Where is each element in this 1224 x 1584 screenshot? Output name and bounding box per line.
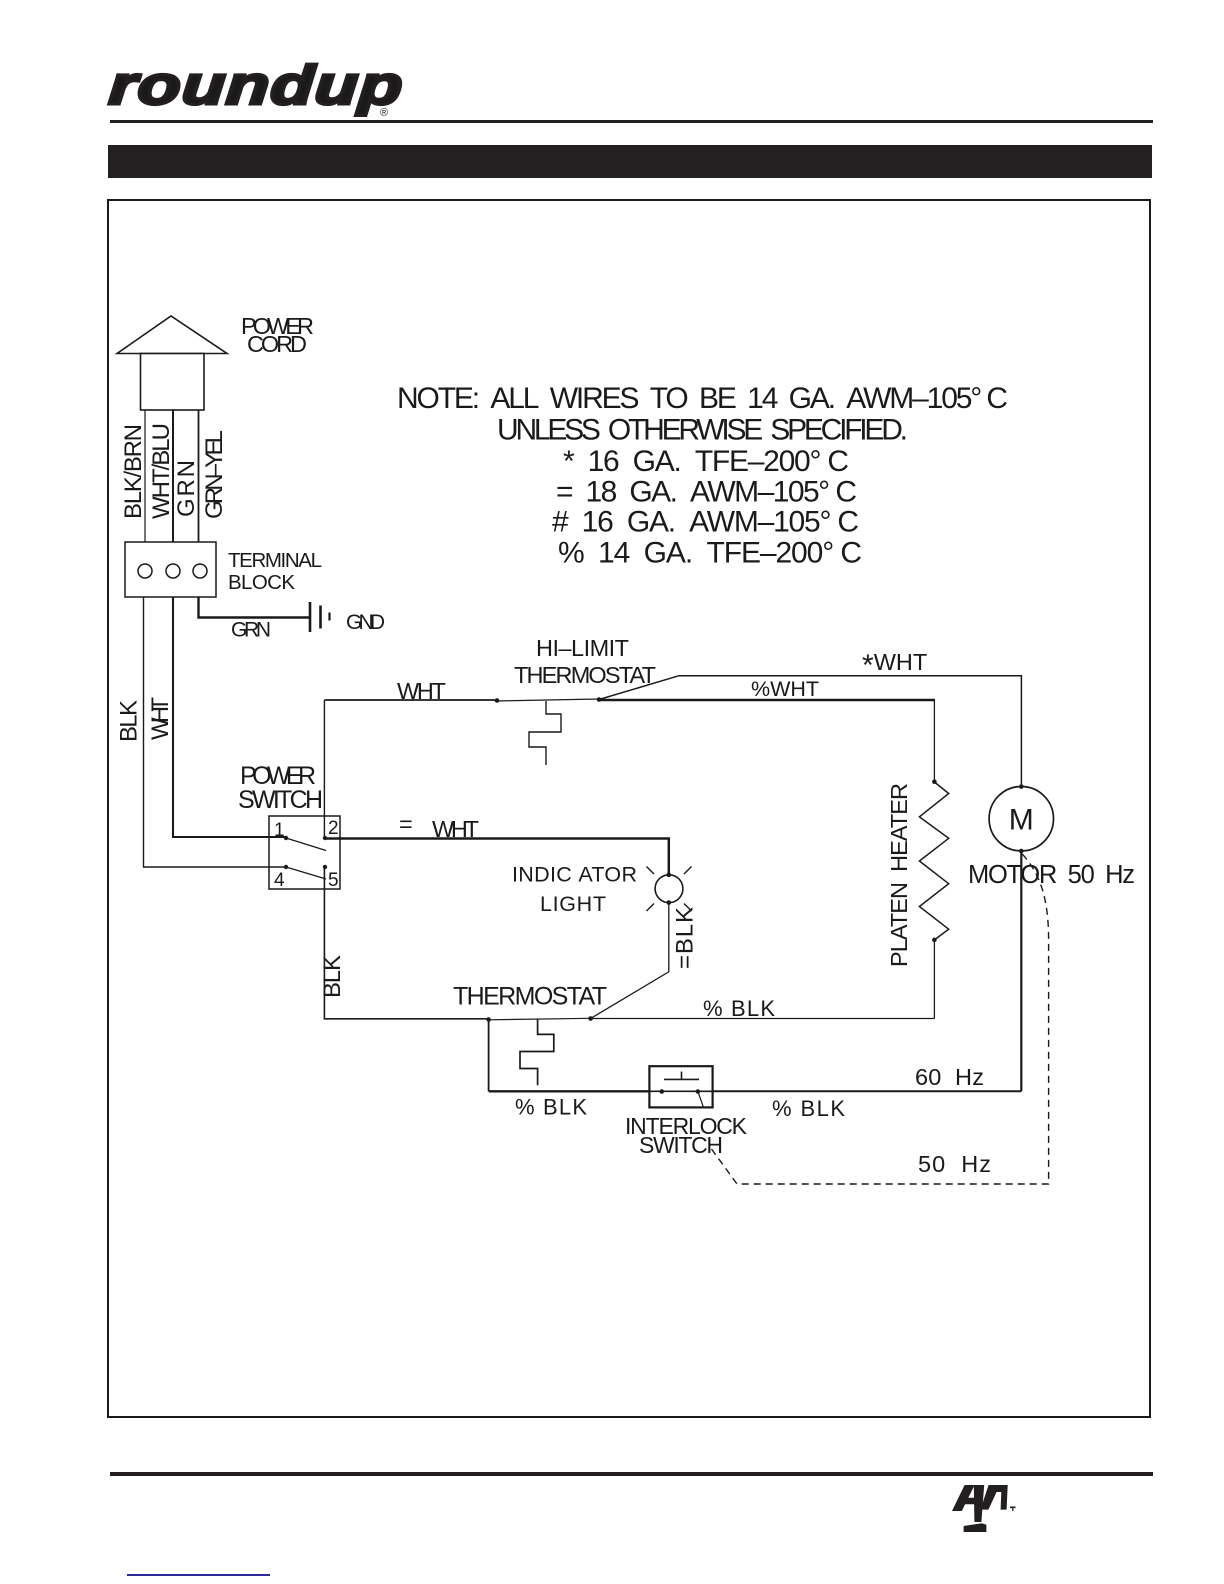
svg-text:BLOCK: BLOCK	[228, 571, 295, 594]
node heater bottom	[932, 938, 937, 943]
node thermostat right contact	[588, 1016, 593, 1021]
wire WHT terminal to power switch pin 1	[173, 597, 286, 837]
svg-text:%WHT: %WHT	[751, 677, 819, 701]
interlock actuator link	[698, 1092, 704, 1108]
svg-text:WHT: WHT	[397, 678, 446, 704]
svg-text:TERMINAL: TERMINAL	[228, 549, 322, 572]
node hi-limit left contact	[495, 698, 500, 703]
hi-limit thermostat blade	[497, 699, 599, 701]
footer rule	[110, 1472, 1153, 1476]
svg-text:4: 4	[274, 870, 285, 891]
diagram border box	[108, 200, 1150, 1417]
header rule	[110, 120, 1153, 123]
svg-text:BLK: BLK	[319, 955, 346, 998]
svg-text:=BLK: =BLK	[672, 907, 699, 969]
node motor top	[1019, 784, 1024, 789]
svg-text:GRN: GRN	[173, 460, 200, 517]
svg-text:% 14 GA. TFE–200° C: % 14 GA. TFE–200° C	[558, 537, 862, 570]
svg-text:5: 5	[328, 870, 339, 891]
hi-limit thermostat sensing element	[529, 701, 561, 765]
indicator light circle	[655, 875, 683, 903]
wire bottom to interlock	[489, 1090, 650, 1092]
wire heater rail top	[933, 700, 935, 782]
thermostat sensing element	[520, 1020, 554, 1086]
node power switch pin5	[323, 865, 327, 869]
svg-text:% BLK: % BLK	[703, 996, 775, 1021]
node power switch pin1	[284, 836, 288, 840]
node power switch pin4	[284, 865, 288, 869]
node thermostat left contact	[486, 1017, 491, 1022]
node hi-limit right contact	[597, 697, 602, 702]
svg-text:1: 1	[274, 820, 285, 841]
wire % BLK thermostat to heater rail	[591, 1018, 935, 1020]
svg-text:GND: GND	[346, 611, 385, 634]
svg-text:= 18 GA. AWM–105° C: = 18 GA. AWM–105° C	[556, 476, 857, 509]
svg-text:CORD: CORD	[247, 331, 307, 357]
wire *WHT to motor	[599, 676, 1021, 787]
svg-text:THERMOSTAT: THERMOSTAT	[453, 983, 607, 1011]
node interlock right contact	[696, 1089, 701, 1094]
svg-text:GRN–YEL: GRN–YEL	[201, 430, 228, 519]
svg-text:% BLK: % BLK	[772, 1096, 845, 1121]
svg-text:% BLK: % BLK	[515, 1095, 587, 1120]
wire through interlock	[649, 1090, 712, 1092]
node power switch pin2	[323, 836, 327, 840]
junction dots	[284, 697, 1024, 1094]
indicator ray upper-right	[684, 867, 692, 875]
wire WHT top rail	[324, 699, 497, 701]
svg-text:®: ®	[380, 107, 388, 119]
power cord body	[141, 354, 205, 411]
svg-text:WHT: WHT	[432, 816, 479, 842]
svg-text:BLK: BLK	[116, 700, 143, 742]
wire GRN terminal to ground	[199, 597, 310, 618]
wire motor rail bottom	[1020, 851, 1022, 1091]
svg-text:roundup: roundup	[107, 55, 405, 116]
power switch box	[269, 816, 340, 889]
svg-text:60 Hz: 60 Hz	[915, 1064, 984, 1090]
thermostat blade	[489, 1018, 591, 1020]
node interlock left contact	[660, 1089, 665, 1094]
AJ Antunes logo	[952, 1485, 1016, 1532]
svg-text:2: 2	[328, 818, 339, 839]
svg-text:# 16 GA. AWM–105° C: # 16 GA. AWM–105° C	[552, 506, 859, 539]
wire =WHT pin2 to indicator	[324, 839, 668, 875]
motor circle	[989, 787, 1053, 851]
wire BLK/BRN from cord	[144, 410, 146, 542]
interlock plunger	[664, 1072, 699, 1080]
wire BLK terminal to power switch pin 4	[144, 597, 287, 867]
node indicator bottom	[667, 900, 672, 905]
terminal block box	[125, 542, 216, 597]
wire thermostat drop	[488, 1020, 490, 1092]
power switch blade 4-5	[286, 867, 326, 879]
node indicator top	[667, 873, 672, 878]
wire interlock to motor rail	[713, 1090, 1022, 1092]
svg-text:GRN: GRN	[231, 619, 271, 642]
footer blue line	[127, 1574, 270, 1576]
svg-text:MOTOR 50 Hz: MOTOR 50 Hz	[968, 861, 1135, 889]
wire %WHT to platen heater	[599, 699, 935, 702]
interlock switch box	[649, 1066, 712, 1107]
roundup logo	[107, 55, 405, 119]
svg-text:=: =	[399, 811, 413, 837]
svg-text:M: M	[1009, 804, 1034, 837]
svg-text:PLATEN HEATER: PLATEN HEATER	[886, 783, 912, 967]
wire heater rail bottom	[933, 940, 935, 1019]
svg-text:THERMOSTAT: THERMOSTAT	[514, 662, 656, 688]
svg-text:*WHT: *WHT	[862, 649, 927, 682]
svg-text:HI–LIMIT: HI–LIMIT	[536, 635, 629, 661]
indicator ray upper-left	[647, 867, 655, 875]
power cord plug triangle	[117, 316, 227, 354]
wire rail down to pin 2	[323, 700, 325, 838]
wire pin5 down to thermostat	[324, 867, 488, 1019]
ground symbol	[309, 602, 312, 632]
wire WHT/BLU from cord	[172, 410, 174, 542]
terminal circle 3	[193, 564, 207, 578]
terminal circle 2	[166, 564, 180, 578]
platen heater zigzag	[919, 782, 948, 940]
black banner bar	[108, 145, 1152, 178]
svg-text:INDIC ATOR: INDIC ATOR	[512, 863, 637, 887]
svg-text:50 Hz: 50 Hz	[918, 1151, 991, 1177]
svg-text:SWITCH: SWITCH	[639, 1132, 723, 1158]
dashed 50 Hz line	[712, 853, 1049, 1184]
svg-text:WHT: WHT	[147, 697, 174, 740]
svg-text:UNLESS OTHERWISE SPECIFIED.: UNLESS OTHERWISE SPECIFIED.	[497, 414, 908, 447]
svg-text:BLK/BRN: BLK/BRN	[120, 424, 147, 519]
node heater top	[932, 779, 937, 784]
svg-text:SWITCH: SWITCH	[238, 786, 323, 814]
wire indicator down	[591, 903, 669, 1019]
svg-text:NOTE: ALL WIRES TO BE 14: NOTE: ALL WIRES TO BE 14 GA. AWM–105° C	[397, 382, 1008, 415]
terminal circle 1	[138, 564, 152, 578]
svg-text:* 16 GA. TFE–200° C: * 16 GA. TFE–200° C	[563, 445, 849, 478]
indicator ray lower-right	[684, 904, 692, 912]
svg-text:LIGHT: LIGHT	[540, 892, 606, 916]
indicator ray lower-left	[647, 904, 655, 912]
power switch blade 1-2	[286, 838, 326, 851]
node motor bottom	[1019, 849, 1024, 854]
wire GRN from cord	[198, 410, 200, 542]
svg-text:WHT/BLU: WHT/BLU	[148, 423, 175, 519]
